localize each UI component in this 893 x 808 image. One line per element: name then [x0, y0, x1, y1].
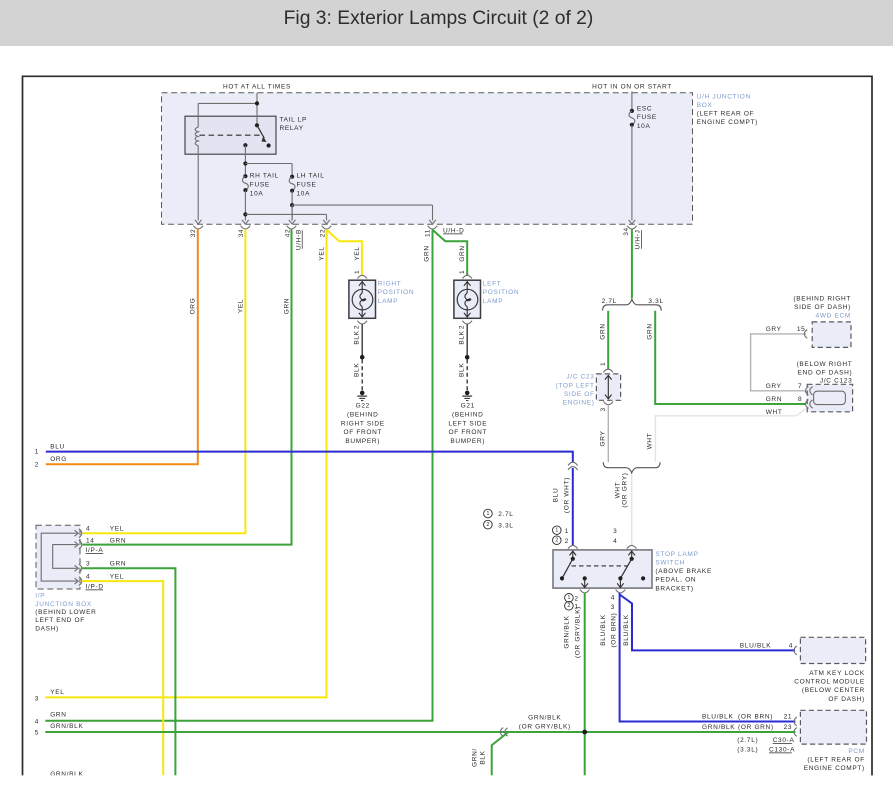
svg-text:(OR GRY): (OR GRY): [621, 472, 628, 507]
svg-text:U/H JUNCTION: U/H JUNCTION: [697, 93, 751, 100]
svg-text:YEL: YEL: [354, 246, 361, 260]
svg-text:YEL: YEL: [50, 689, 64, 696]
fuse LH TAIL FUSE 10A: [290, 175, 294, 179]
switch 2 contact structure: [631, 551, 633, 559]
svg-text:GRN: GRN: [50, 712, 66, 719]
bottom pins circled 1=2 circled 2=1: [565, 594, 574, 603]
stop lamp switch bottom connectors: [580, 590, 590, 593]
svg-text:ORG: ORG: [50, 456, 67, 463]
svg-text:BRACKET): BRACKET): [655, 585, 693, 592]
wire YEL from pin 22 to left edge pin 3: [45, 229, 326, 697]
svg-text:GRN/BLK: GRN/BLK: [528, 715, 561, 722]
svg-text:WHT: WHT: [766, 409, 783, 416]
svg-text:I/P-D: I/P-D: [86, 583, 104, 590]
connector at stop lamp switch pin 3/4: [627, 545, 637, 548]
svg-text:FUSE: FUSE: [250, 181, 270, 188]
svg-text:(2.7L): (2.7L): [737, 737, 758, 744]
svg-text:BLU: BLU: [553, 488, 560, 503]
svg-text:I/P-A: I/P-A: [86, 547, 104, 554]
svg-text:4: 4: [86, 525, 90, 532]
svg-text:LAMP: LAMP: [483, 298, 503, 305]
wire: relay output down + branch to LH fuse: [244, 145, 246, 176]
svg-text:J/C C123: J/C C123: [820, 377, 853, 384]
svg-text:PCM: PCM: [848, 748, 864, 755]
relay internal dashed link: [200, 134, 262, 136]
relay TAIL LP RELAY: [185, 116, 276, 154]
wire: RH fuse to pins 34 and 22: [244, 190, 246, 220]
svg-text:4: 4: [35, 718, 39, 725]
PCM pin 21 connector: [794, 717, 797, 726]
junction connector J/C C23: [596, 374, 620, 400]
svg-text:2: 2: [565, 538, 569, 545]
svg-text:GRN/: GRN/: [472, 748, 479, 767]
svg-text:ATM KEY LOCK: ATM KEY LOCK: [809, 670, 865, 677]
svg-text:11: 11: [425, 229, 432, 237]
wire GRY from 4WD ECM pin 15 to J/C C123 pin 7: [751, 334, 807, 391]
svg-text:G22: G22: [356, 403, 370, 410]
switch STOP LAMP SWITCH: [553, 550, 652, 588]
wire WHT (OR GRY) to stop lamp switch: [631, 474, 633, 545]
wire GRN 2.7L branch: [607, 311, 609, 369]
legend circled 1 = 2.7L: [484, 509, 493, 518]
relay coil: [195, 127, 198, 145]
svg-text:GRN: GRN: [284, 298, 291, 314]
legend circled 2 = 3.3L: [484, 520, 493, 529]
svg-text:14: 14: [86, 538, 95, 545]
module ATM KEY LOCK CONTROL MODULE (dashed): [800, 637, 865, 663]
svg-text:GRN: GRN: [599, 323, 606, 339]
svg-text:(BEHIND LOWER: (BEHIND LOWER: [35, 609, 96, 616]
svg-text:J/C C23: J/C C23: [566, 374, 594, 381]
svg-text:1: 1: [555, 528, 558, 534]
svg-text:(LEFT REAR OF: (LEFT REAR OF: [697, 111, 754, 118]
U/H junction box (dashed): [162, 93, 693, 224]
svg-text:LAMP: LAMP: [378, 298, 398, 305]
svg-text:SIDE OF: SIDE OF: [564, 391, 595, 398]
svg-text:OF FRONT: OF FRONT: [448, 429, 487, 436]
svg-text:2: 2: [555, 538, 558, 544]
svg-text:ENGINE COMPT): ENGINE COMPT): [804, 765, 865, 772]
I/P pin connector: [79, 564, 82, 573]
svg-text:GRN: GRN: [459, 245, 466, 261]
svg-text:(OR WHT): (OR WHT): [564, 477, 571, 513]
ground G21: [465, 391, 470, 396]
svg-text:1: 1: [35, 449, 39, 456]
wire BLU from left edge pin 1 to stop lamp switch: [46, 452, 573, 463]
wire BLU/BLK (OR BRN) from switch pin 4 to PCM pin 21: [620, 593, 796, 722]
connector into J/C C23 pin 1: [603, 369, 613, 372]
svg-text:G21: G21: [461, 403, 475, 410]
svg-text:ESC: ESC: [637, 106, 652, 113]
4WD ECM pin 15 connector: [804, 330, 807, 339]
svg-text:(BELOW CENTER: (BELOW CENTER: [802, 687, 865, 694]
lamp LEFT POSITION LAMP: [454, 280, 481, 318]
svg-text:10A: 10A: [637, 123, 651, 130]
connector into left position lamp: [462, 275, 472, 278]
I/P pin connector: [79, 577, 82, 586]
U/H box exit pin 11 connector: [429, 220, 436, 224]
svg-text:U/H-J: U/H-J: [635, 229, 642, 249]
svg-text:1: 1: [565, 528, 569, 535]
svg-text:GRN: GRN: [424, 245, 431, 261]
fuse ESC FUSE 10A: [631, 91, 633, 111]
svg-text:4: 4: [789, 642, 793, 649]
svg-text:POSITION: POSITION: [483, 289, 520, 296]
svg-text:FUSE: FUSE: [297, 181, 317, 188]
wire BLK dashed to ground: [361, 359, 363, 390]
svg-text:2: 2: [458, 325, 465, 329]
wire GRN/BLK from switch pin 2 down: [584, 593, 586, 776]
svg-text:BOX: BOX: [697, 102, 713, 109]
svg-text:3: 3: [35, 696, 39, 703]
module PCM (dashed): [800, 710, 866, 744]
svg-text:YEL: YEL: [110, 525, 124, 532]
wire BLK from lamp: [466, 324, 468, 357]
svg-text:YEL: YEL: [238, 299, 245, 313]
connector at stop lamp switch pin 1/2: [568, 545, 578, 548]
lamp RIGHT POSITION LAMP: [349, 280, 376, 318]
svg-text:OF DASH): OF DASH): [828, 696, 865, 703]
svg-text:END OF DASH): END OF DASH): [798, 370, 853, 377]
switch ganged dashed link: [572, 565, 629, 567]
svg-text:10A: 10A: [297, 190, 311, 197]
svg-text:(OR GRY/BLK): (OR GRY/BLK): [519, 724, 571, 731]
svg-text:BUMPER): BUMPER): [345, 438, 380, 445]
svg-text:2: 2: [486, 522, 489, 528]
svg-text:SIDE OF DASH): SIDE OF DASH): [794, 304, 851, 311]
svg-text:HOT IN ON OR START: HOT IN ON OR START: [592, 83, 672, 90]
svg-text:3.3L: 3.3L: [648, 298, 663, 305]
svg-text:2.7L: 2.7L: [498, 511, 513, 518]
svg-text:4: 4: [86, 573, 90, 580]
svg-text:BLK: BLK: [458, 330, 465, 344]
ATM module pin 4 connector: [794, 646, 797, 655]
svg-text:LEFT: LEFT: [483, 281, 502, 288]
svg-text:GRN/BLK: GRN/BLK: [702, 724, 735, 731]
svg-text:ENGINE COMPT): ENGINE COMPT): [697, 119, 758, 126]
stop lamp switch pins 1/2: [553, 526, 562, 535]
svg-text:3: 3: [611, 604, 615, 611]
svg-text:RH TAIL: RH TAIL: [250, 173, 279, 180]
svg-text:OF FRONT: OF FRONT: [343, 429, 382, 436]
svg-text:RELAY: RELAY: [280, 125, 304, 132]
svg-text:GRN/BLK: GRN/BLK: [50, 723, 83, 730]
svg-text:(ABOVE BRAKE: (ABOVE BRAKE: [655, 568, 712, 575]
svg-text:10A: 10A: [250, 190, 264, 197]
wire YEL from pin 34 to I/P-A pin 4: [83, 229, 246, 533]
svg-text:4: 4: [613, 538, 617, 545]
svg-text:(BEHIND RIGHT: (BEHIND RIGHT: [793, 295, 851, 302]
J/C C123 pin 7 connector: [806, 386, 809, 395]
ground G22: [360, 391, 365, 396]
svg-text:HOT AT ALL TIMES: HOT AT ALL TIMES: [223, 83, 291, 90]
title bar: [0, 0, 893, 46]
wire: LH fuse to pins 42 and 11: [291, 191, 293, 221]
svg-text:2.7L: 2.7L: [602, 298, 617, 305]
svg-text:2: 2: [353, 325, 360, 329]
inline connector on GRN/BLK wire: [500, 728, 503, 737]
svg-text:GRN: GRN: [647, 323, 654, 339]
wire GRN 3.3L branch to J/C C123: [655, 311, 806, 404]
I/P bus bar inner (pins 14-3): [53, 545, 77, 569]
svg-text:RIGHT SIDE: RIGHT SIDE: [341, 420, 385, 427]
wire YEL branch to right position lamp: [327, 230, 362, 275]
switch output contacts: [583, 576, 587, 580]
svg-text:21: 21: [784, 714, 793, 721]
svg-text:GRN/BLK: GRN/BLK: [563, 615, 570, 648]
svg-text:(OR GRN): (OR GRN): [738, 724, 774, 731]
svg-text:4WD ECM: 4WD ECM: [816, 313, 851, 320]
wire GRN/BLK left edge pin 5 to PCM pin 23: [45, 731, 795, 733]
svg-text:1: 1: [459, 270, 466, 274]
svg-text:BLK: BLK: [353, 363, 360, 377]
svg-text:1: 1: [567, 595, 570, 601]
svg-text:GRN: GRN: [766, 396, 782, 403]
PCM pin 23 connector: [794, 728, 797, 737]
U/H box exit pin 34 connector: [242, 220, 249, 224]
wire GRN from I/P pin 3 down: [82, 568, 176, 775]
svg-text:22: 22: [320, 229, 327, 238]
svg-text:34: 34: [238, 229, 245, 238]
module 4WD ECM (dashed): [812, 322, 851, 348]
wire BLK dashed to ground: [466, 359, 468, 390]
svg-text:GRY: GRY: [766, 326, 782, 333]
wire: hot feed to relay: [256, 93, 258, 126]
wire GRN from pin 11 to left edge pin 4: [45, 229, 432, 721]
svg-text:(OR GRY/BLK): (OR GRY/BLK): [574, 606, 581, 658]
wire YEL from I/P pin 4 (I/P-D) down: [82, 581, 163, 775]
svg-text:BLK: BLK: [353, 330, 360, 344]
svg-text:C30-A: C30-A: [773, 737, 795, 744]
svg-text:2: 2: [567, 603, 570, 609]
wire GRY from J/C C23: [607, 405, 609, 462]
U/H box exit pin 34 connector: [629, 220, 636, 224]
switch 1 contact structure: [572, 551, 574, 559]
svg-text:(LEFT REAR OF: (LEFT REAR OF: [807, 757, 864, 764]
svg-text:C130-A: C130-A: [769, 746, 795, 753]
splice: [465, 355, 470, 360]
svg-text:3: 3: [600, 407, 607, 411]
svg-text:BUMPER): BUMPER): [450, 438, 485, 445]
svg-text:LEFT END OF: LEFT END OF: [35, 617, 85, 624]
engine split brace 2.7L/3.3L: [603, 299, 662, 310]
svg-text:SWITCH: SWITCH: [655, 560, 685, 567]
wire GRN from ESC pin 34: [631, 229, 633, 298]
svg-text:15: 15: [797, 326, 806, 333]
I/P junction box (dashed): [36, 525, 80, 589]
svg-text:CONTROL MODULE: CONTROL MODULE: [794, 679, 865, 686]
svg-text:1: 1: [354, 270, 361, 274]
svg-text:8: 8: [798, 396, 802, 403]
I/P pin connector: [79, 540, 82, 549]
svg-text:BLK: BLK: [480, 750, 487, 764]
svg-text:LH TAIL: LH TAIL: [297, 173, 325, 180]
svg-text:32: 32: [190, 229, 197, 238]
svg-text:(BEHIND: (BEHIND: [347, 411, 378, 418]
svg-text:DASH): DASH): [35, 625, 59, 632]
svg-text:23: 23: [784, 724, 793, 731]
relay switch arm: [255, 123, 259, 127]
svg-text:GRY: GRY: [599, 430, 606, 446]
lamp pin 2 connector: [357, 321, 367, 324]
svg-text:YEL: YEL: [110, 573, 124, 580]
svg-text:5: 5: [35, 729, 39, 736]
svg-text:2: 2: [574, 595, 578, 602]
svg-text:GRN: GRN: [110, 538, 126, 545]
svg-text:(BELOW RIGHT: (BELOW RIGHT: [797, 361, 853, 368]
U/H box exit pin 32 connector: [195, 220, 202, 224]
svg-text:YEL: YEL: [319, 246, 326, 260]
merge brace GRY/WHT: [603, 462, 660, 473]
wire GRN from pin 42 to I/P-A pin 14: [83, 229, 292, 544]
svg-text:BLU/BLK: BLU/BLK: [702, 714, 734, 721]
svg-text:JUNCTION BOX: JUNCTION BOX: [35, 601, 92, 608]
svg-text:1: 1: [486, 511, 489, 517]
svg-text:GRN/BLK: GRN/BLK: [50, 771, 83, 778]
wire ORG from pin 32: [46, 229, 198, 464]
J/C C123 pin 8 connector: [806, 400, 809, 409]
svg-text:LEFT SIDE: LEFT SIDE: [448, 420, 487, 427]
splice: [360, 355, 365, 360]
svg-text:2: 2: [35, 462, 39, 469]
svg-text:U/H-D: U/H-D: [443, 227, 464, 234]
svg-text:(OR BRN): (OR BRN): [611, 612, 618, 647]
junction connector J/C C123 (dashed): [807, 384, 852, 412]
svg-text:BLU/BLK: BLU/BLK: [740, 642, 772, 649]
svg-text:42: 42: [284, 229, 291, 238]
I/P bus bar outer (pins 4-4): [41, 533, 77, 581]
wire: relay coil to pin 32: [197, 146, 199, 221]
svg-text:1: 1: [600, 362, 607, 366]
svg-text:I/P: I/P: [35, 593, 45, 600]
svg-text:STOP LAMP: STOP LAMP: [655, 551, 698, 558]
svg-text:BLK: BLK: [458, 363, 465, 377]
wire GRN/BLK branch down: [492, 732, 509, 775]
svg-text:34: 34: [623, 227, 630, 236]
svg-text:ENGINE): ENGINE): [563, 400, 595, 407]
fuse RH TAIL FUSE 10A: [243, 174, 247, 178]
svg-text:GRN: GRN: [110, 561, 126, 568]
U/H box exit pin 22 connector: [323, 220, 330, 224]
wire WHT from J/C C123 pin 8: [655, 409, 805, 462]
svg-text:(TOP LEFT: (TOP LEFT: [555, 382, 594, 389]
I/P pin connector: [79, 529, 82, 538]
svg-text:TAIL LP: TAIL LP: [280, 117, 308, 124]
svg-text:BLU/BLK: BLU/BLK: [600, 614, 607, 646]
svg-text:BLU: BLU: [50, 444, 65, 451]
svg-text:(3.3L): (3.3L): [737, 746, 758, 753]
svg-text:4: 4: [611, 595, 615, 602]
svg-text:U/H-B: U/H-B: [295, 229, 302, 250]
svg-text:7: 7: [798, 383, 802, 390]
svg-text:RIGHT: RIGHT: [378, 281, 402, 288]
svg-text:POSITION: POSITION: [378, 289, 415, 296]
connector into right position lamp: [357, 275, 367, 278]
relay output contact: [243, 143, 247, 147]
svg-text:Fig 3: Exterior Lamps Circuit: Fig 3: Exterior Lamps Circuit (2 of 2): [284, 8, 594, 29]
svg-text:ORG: ORG: [190, 298, 197, 315]
svg-text:PEDAL, ON: PEDAL, ON: [655, 577, 696, 584]
junction splice GRN/BLK: [582, 730, 587, 735]
wire GRN branch to left position lamp: [433, 230, 468, 275]
svg-text:3: 3: [613, 528, 617, 535]
svg-text:BLU/BLK: BLU/BLK: [623, 614, 630, 646]
svg-text:3: 3: [86, 561, 90, 568]
svg-text:GRY: GRY: [766, 383, 782, 390]
wire BLU/BLK branch to ATM key lock module: [620, 595, 795, 651]
inline connector on BLU wire: [568, 462, 578, 465]
U/H box exit pin 42 connector: [291, 205, 293, 220]
J/C C23 pin 3 connector: [604, 401, 614, 404]
svg-text:3.3L: 3.3L: [498, 522, 513, 529]
svg-text:WHT: WHT: [646, 433, 653, 450]
wire BLK from lamp: [361, 324, 363, 357]
lamp pin 2 connector: [462, 321, 472, 324]
svg-text:(BEHIND: (BEHIND: [452, 411, 483, 418]
svg-text:FUSE: FUSE: [637, 114, 657, 121]
svg-text:(OR BRN): (OR BRN): [738, 714, 773, 721]
